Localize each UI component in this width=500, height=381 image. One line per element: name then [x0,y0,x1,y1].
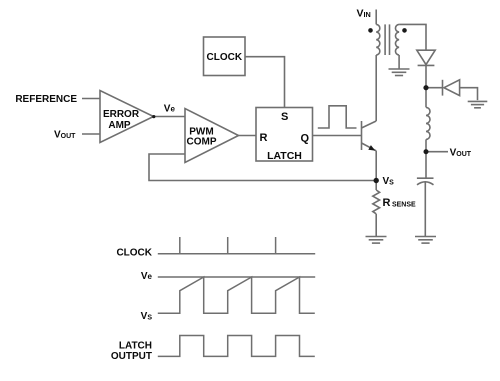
svg-text:VOUT: VOUT [54,129,76,140]
svg-text:R: R [260,132,268,144]
svg-text:REFERENCE: REFERENCE [15,94,77,105]
svg-text:Ve: Ve [141,271,153,282]
svg-text:CLOCK: CLOCK [207,52,243,63]
svg-text:ERROR: ERROR [103,109,140,120]
svg-text:VIN: VIN [357,8,371,20]
svg-text:RSENSE: RSENSE [383,197,417,209]
svg-text:Ve: Ve [164,104,176,115]
svg-text:Q: Q [301,133,310,145]
svg-text:S: S [281,111,288,123]
svg-text:AMP: AMP [108,120,131,131]
svg-text:COMP: COMP [187,137,217,148]
svg-text:LATCH: LATCH [119,341,152,352]
svg-text:VS: VS [141,311,153,322]
svg-text:VOUT: VOUT [450,148,472,159]
svg-text:CLOCK: CLOCK [116,248,152,259]
svg-text:OUTPUT: OUTPUT [111,351,152,362]
svg-text:VS: VS [383,176,395,187]
svg-text:LATCH: LATCH [267,150,302,162]
